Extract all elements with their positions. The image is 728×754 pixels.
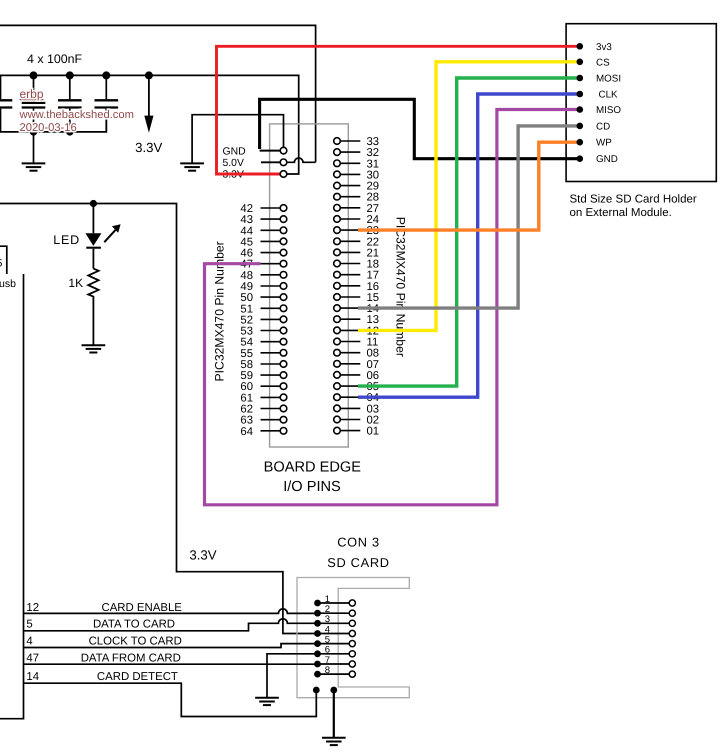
label I/O PINS bbox=[283, 479, 341, 495]
svg-text:CS: CS bbox=[596, 57, 610, 68]
pin 60 label bbox=[240, 381, 253, 393]
label CON 3 bbox=[337, 535, 380, 550]
pin 48 stub bbox=[261, 274, 281, 276]
pin 08 stub bbox=[340, 352, 360, 354]
svg-text:I/O PINS: I/O PINS bbox=[283, 479, 341, 495]
LED arrow bbox=[104, 224, 120, 242]
pin 03 stub bbox=[340, 407, 360, 409]
SD holder pin CD bbox=[577, 121, 611, 132]
pin 61 stub bbox=[261, 396, 281, 398]
label 5 bbox=[26, 619, 32, 631]
CON3 pin 2 bbox=[314, 604, 355, 617]
svg-text:06: 06 bbox=[367, 370, 380, 382]
svg-text:27: 27 bbox=[367, 203, 380, 215]
svg-text:CON 3: CON 3 bbox=[337, 535, 380, 550]
pin 50 label bbox=[240, 292, 253, 304]
wire purple MISO pin47 bbox=[205, 110, 580, 505]
pin 63 circle bbox=[280, 416, 287, 423]
wire LED rail / 3.3V feed to CON3 pin4 bbox=[0, 204, 315, 634]
pin 64 label bbox=[240, 426, 253, 438]
pin 04 label bbox=[367, 392, 380, 404]
pin 53 circle bbox=[280, 327, 287, 334]
pin 08 label bbox=[367, 348, 380, 360]
pin 18 circle bbox=[334, 260, 341, 267]
label 5.0V bbox=[223, 158, 244, 169]
svg-text:2020-03-16: 2020-03-16 bbox=[20, 122, 77, 134]
label PIC32MX470 Pin Number (left) bbox=[213, 241, 227, 381]
pin 27 label bbox=[367, 203, 380, 215]
pin 24 stub bbox=[340, 218, 360, 220]
LED D1 bbox=[85, 204, 101, 269]
svg-text:64: 64 bbox=[240, 426, 253, 438]
svg-text:4: 4 bbox=[26, 636, 32, 648]
CON3 pin 1 bbox=[314, 594, 355, 607]
pin 05 circle bbox=[334, 383, 341, 390]
wire red 3v3 bbox=[217, 46, 580, 174]
pin 61 circle bbox=[280, 394, 287, 401]
pin 49 stub bbox=[261, 285, 281, 287]
pin 07 stub bbox=[340, 363, 360, 365]
pin 43 circle bbox=[280, 216, 287, 223]
SD card holder box bbox=[566, 24, 716, 182]
svg-text:8: 8 bbox=[325, 665, 330, 676]
SD holder pin CLK bbox=[577, 90, 619, 101]
svg-text:CLOCK TO CARD: CLOCK TO CARD bbox=[89, 636, 182, 648]
pin 44 label bbox=[240, 225, 253, 237]
capacitor C4 100nF bbox=[95, 75, 119, 131]
label PIC32MX470 Pin Number (right) bbox=[394, 217, 408, 357]
pin 33 stub bbox=[340, 140, 360, 142]
pin 58 stub bbox=[261, 363, 281, 365]
junction bbox=[66, 71, 74, 79]
svg-text:BOARD EDGE: BOARD EDGE bbox=[264, 460, 362, 476]
resistor R1 1K bbox=[88, 269, 98, 345]
label 3.3V (CON3 feed) bbox=[189, 548, 216, 563]
svg-text:DATA TO CARD: DATA TO CARD bbox=[93, 619, 175, 631]
CON3 pin 6 bbox=[314, 645, 355, 658]
label CARD ENABLE bbox=[101, 602, 182, 614]
label SD CARD bbox=[327, 555, 390, 570]
svg-text:5: 5 bbox=[26, 619, 32, 631]
pin 43 stub bbox=[261, 218, 281, 220]
pin 17 label bbox=[367, 270, 380, 282]
pin 58 circle bbox=[280, 361, 287, 368]
pin 32 circle bbox=[334, 149, 341, 156]
pin 42 label bbox=[240, 203, 253, 215]
CON3 pin 3 bbox=[314, 614, 355, 627]
svg-text:3.3V: 3.3V bbox=[189, 548, 216, 563]
label 14 bbox=[26, 671, 39, 683]
svg-text:DATA FROM CARD: DATA FROM CARD bbox=[81, 652, 181, 664]
pin 42 circle bbox=[280, 205, 287, 212]
pin 02 circle bbox=[334, 416, 341, 423]
label 4 x 100nF bbox=[27, 52, 83, 66]
pin 17 stub bbox=[340, 274, 360, 276]
label GND bbox=[223, 146, 246, 157]
svg-text:3.3V: 3.3V bbox=[135, 140, 162, 155]
pin 44 stub bbox=[261, 229, 281, 231]
junction bbox=[30, 128, 37, 135]
svg-text:WP: WP bbox=[596, 138, 612, 149]
wire GND pin to ground symbol bbox=[192, 115, 283, 164]
pin 46 label bbox=[240, 248, 253, 260]
wire DATA FROM CARD to pin7 bbox=[24, 663, 316, 665]
CON3 pin 5 bbox=[314, 634, 355, 647]
pin 47 stub bbox=[261, 263, 281, 265]
pin 43 label bbox=[240, 214, 253, 226]
pin 06 label bbox=[367, 370, 380, 382]
pin 28 label bbox=[367, 192, 380, 204]
power 3.3V arrow bbox=[144, 75, 153, 132]
capacitor C1 100nF bbox=[0, 75, 12, 131]
pin 30 label bbox=[367, 169, 380, 181]
pin 47 label bbox=[240, 259, 253, 271]
wire DATA TO CARD to pin3 bbox=[24, 619, 316, 631]
svg-text:5: 5 bbox=[0, 258, 3, 270]
pin 32 stub bbox=[340, 151, 360, 153]
label CARD DETECT bbox=[97, 671, 178, 683]
pin 14 circle bbox=[334, 305, 341, 312]
junction bbox=[145, 71, 153, 79]
pin 04 circle bbox=[334, 394, 341, 401]
pin GND circle bbox=[280, 147, 287, 154]
svg-text:SD CARD: SD CARD bbox=[327, 555, 390, 570]
svg-text:12: 12 bbox=[26, 602, 39, 614]
pin 06 stub bbox=[340, 374, 360, 376]
pin 54 circle bbox=[280, 338, 287, 345]
label 5 (pin of left box) bbox=[0, 258, 3, 270]
svg-text:LED: LED bbox=[53, 233, 80, 247]
junction bbox=[66, 128, 73, 135]
label DATA TO CARD bbox=[93, 619, 175, 631]
pin 55 circle bbox=[280, 350, 287, 357]
label LED bbox=[53, 233, 80, 247]
capacitor C2 100nF bbox=[22, 75, 46, 131]
pin 54 label bbox=[240, 337, 253, 349]
wire GND pin link bbox=[260, 150, 280, 152]
ground bbox=[255, 698, 279, 705]
pin 23 label bbox=[367, 225, 380, 237]
svg-text:62: 62 bbox=[240, 404, 253, 416]
junction bbox=[30, 71, 38, 79]
svg-text:CLK: CLK bbox=[599, 90, 619, 101]
pin 04 stub bbox=[340, 396, 360, 398]
pin 07 label bbox=[367, 359, 380, 371]
capacitor C3 100nF bbox=[58, 75, 82, 131]
pin 29 circle bbox=[334, 182, 341, 189]
svg-text:www.thebackshed.com: www.thebackshed.com bbox=[19, 109, 134, 121]
label 4 bbox=[26, 636, 32, 648]
svg-text:MOSI: MOSI bbox=[596, 74, 621, 85]
pin 11 label bbox=[367, 337, 379, 349]
label 3.3V bbox=[135, 140, 162, 155]
pin 63 label bbox=[240, 415, 253, 427]
pin 30 stub bbox=[340, 173, 360, 175]
wire grey CD pin14 bbox=[358, 126, 580, 308]
CON3 mounting pin (gnd) bbox=[330, 687, 337, 738]
ground bbox=[322, 738, 346, 745]
pin 11 stub bbox=[340, 341, 360, 343]
svg-text:43: 43 bbox=[240, 214, 253, 226]
svg-text:11: 11 bbox=[367, 337, 379, 349]
pin 52 label bbox=[240, 314, 253, 326]
pin 53 label bbox=[240, 326, 253, 338]
pin 07 circle bbox=[334, 361, 341, 368]
pin 15 label bbox=[367, 292, 380, 304]
label 1K bbox=[68, 276, 83, 290]
svg-text:47: 47 bbox=[26, 652, 39, 664]
svg-text:18: 18 bbox=[367, 259, 380, 271]
pin 02 label bbox=[367, 415, 380, 427]
pin 51 circle bbox=[280, 305, 287, 312]
svg-text:60: 60 bbox=[240, 381, 253, 393]
pin 61 label bbox=[240, 392, 253, 404]
pin 11 circle bbox=[334, 338, 341, 345]
svg-text:50: 50 bbox=[240, 292, 253, 304]
pin 12 label bbox=[367, 325, 380, 337]
CON3 pin 4 bbox=[314, 624, 355, 637]
pin 05 stub bbox=[340, 385, 360, 387]
pin 53 stub bbox=[261, 330, 281, 332]
svg-text:GND: GND bbox=[223, 146, 246, 157]
pin 31 circle bbox=[334, 160, 341, 167]
svg-text:PIC32MX470 Pin Number: PIC32MX470 Pin Number bbox=[394, 217, 408, 357]
pin 29 label bbox=[367, 181, 380, 193]
svg-text:3v3: 3v3 bbox=[596, 42, 612, 53]
svg-text:CARD ENABLE: CARD ENABLE bbox=[101, 602, 182, 614]
pin 59 label bbox=[240, 370, 253, 382]
pin 21 stub bbox=[340, 251, 360, 253]
pin 21 circle bbox=[334, 249, 341, 256]
wire orange WP pin23 bbox=[358, 142, 580, 230]
ground bbox=[180, 163, 204, 170]
pin 31 stub bbox=[340, 162, 360, 164]
pin 48 label bbox=[240, 270, 253, 282]
pin 22 circle bbox=[334, 238, 341, 245]
pin 45 label bbox=[240, 236, 253, 248]
pin 46 stub bbox=[261, 252, 281, 254]
SD holder pin GND bbox=[577, 154, 618, 165]
pin 58 label bbox=[240, 359, 253, 371]
CON3 mounting pin (card detect) bbox=[313, 687, 320, 694]
svg-text:erbp: erbp bbox=[20, 87, 44, 101]
ground bbox=[22, 163, 46, 170]
pin 18 label bbox=[367, 259, 380, 271]
wire 5.0V pin stub bbox=[261, 161, 280, 163]
svg-text:usb: usb bbox=[0, 278, 16, 290]
svg-text:on External Module.: on External Module. bbox=[570, 207, 672, 219]
pin 13 label bbox=[367, 314, 380, 326]
ground bbox=[82, 345, 106, 352]
pin 46 circle bbox=[280, 249, 287, 256]
pin 63 stub bbox=[261, 419, 281, 421]
svg-text:48: 48 bbox=[240, 270, 253, 282]
pin 45 stub bbox=[261, 240, 281, 242]
svg-text:55: 55 bbox=[240, 348, 253, 360]
pin 13 circle bbox=[334, 316, 341, 323]
svg-text:5.0V: 5.0V bbox=[223, 158, 244, 169]
pin 08 circle bbox=[334, 349, 341, 356]
pin 49 circle bbox=[280, 283, 287, 290]
pin 52 circle bbox=[280, 316, 287, 323]
SD holder pin MISO bbox=[577, 105, 622, 116]
pin 15 stub bbox=[340, 296, 360, 298]
pin 01 label bbox=[367, 426, 380, 438]
SD holder pin 3v3 bbox=[577, 42, 613, 53]
pin 12 circle bbox=[334, 327, 341, 334]
wire 3.3V bus to 3.3V pin bbox=[0, 75, 299, 174]
wire capacitor ground bus bbox=[0, 108, 106, 131]
pin 23 circle bbox=[334, 227, 341, 234]
label usb bbox=[0, 278, 16, 290]
pin 49 label bbox=[240, 281, 253, 293]
label on External Module. bbox=[570, 207, 672, 219]
wire CARD DETECT to card switch bbox=[24, 683, 317, 716]
svg-text:30: 30 bbox=[367, 169, 380, 181]
pin 62 stub bbox=[261, 408, 281, 410]
pin 54 stub bbox=[261, 341, 281, 343]
wire cap bus to ground bbox=[33, 132, 35, 163]
pin 16 stub bbox=[340, 285, 360, 287]
pin 13 stub bbox=[340, 318, 360, 320]
pin 5.0V circle bbox=[280, 159, 287, 166]
wire pin6 to ground bbox=[267, 654, 315, 698]
pin 14 label bbox=[367, 303, 380, 315]
svg-text:4 x 100nF: 4 x 100nF bbox=[27, 52, 83, 66]
pin 62 circle bbox=[280, 405, 287, 412]
label 12 bbox=[26, 602, 39, 614]
pin 14 stub bbox=[340, 307, 360, 309]
pin 06 circle bbox=[334, 372, 341, 379]
wire GND (thick) board to SD holder bbox=[260, 99, 580, 158]
watermark 2020-03-16 bbox=[20, 122, 77, 134]
SD holder pin CS bbox=[577, 57, 611, 68]
svg-text:GND: GND bbox=[596, 154, 618, 165]
pin 12 stub bbox=[340, 329, 360, 331]
pin 60 circle bbox=[280, 383, 287, 390]
svg-text:14: 14 bbox=[26, 671, 39, 683]
pin 52 stub bbox=[261, 318, 281, 320]
SD holder pin WP bbox=[577, 138, 613, 149]
wire yellow CS pin12 bbox=[358, 62, 580, 331]
pin 3.3V circle bbox=[280, 171, 287, 178]
pin 64 circle bbox=[280, 428, 287, 435]
pin 18 stub bbox=[340, 263, 360, 265]
pin 33 label bbox=[367, 136, 380, 148]
label 47 bbox=[26, 652, 39, 664]
label DATA FROM CARD bbox=[81, 652, 181, 664]
junction bbox=[102, 71, 110, 79]
pin 01 stub bbox=[340, 430, 360, 432]
wire green MOSI pin05 bbox=[358, 78, 580, 386]
junction bbox=[90, 200, 97, 207]
pin 16 label bbox=[367, 281, 380, 293]
svg-text:CD: CD bbox=[596, 121, 610, 132]
pin 51 label bbox=[240, 303, 253, 315]
pin 22 label bbox=[367, 236, 380, 248]
pin 01 circle bbox=[334, 427, 341, 434]
SD holder pin MOSI bbox=[577, 74, 622, 85]
pin 24 circle bbox=[334, 216, 341, 223]
wire CLOCK TO CARD to pin5 bbox=[24, 644, 316, 648]
label Std Size SD Card Holder bbox=[570, 194, 697, 206]
svg-text:1K: 1K bbox=[68, 276, 83, 290]
svg-text:MISO: MISO bbox=[596, 105, 621, 116]
pin 03 circle bbox=[334, 405, 341, 412]
wire CARD ENABLE to pin2 bbox=[24, 609, 316, 614]
pin 59 stub bbox=[261, 374, 281, 376]
pin 27 stub bbox=[340, 207, 360, 209]
CON3 pin 8 bbox=[314, 665, 355, 678]
pin 62 label bbox=[240, 404, 253, 416]
wire blue CLK pin04 bbox=[358, 94, 580, 397]
svg-text:Std Size SD Card Holder: Std Size SD Card Holder bbox=[570, 194, 697, 206]
pin 27 circle bbox=[334, 205, 341, 212]
label 3.3V bbox=[223, 170, 244, 181]
svg-text:01: 01 bbox=[367, 426, 380, 438]
CON3 socket outline bbox=[297, 578, 409, 698]
pin 17 circle bbox=[334, 271, 341, 278]
pin 59 circle bbox=[280, 372, 287, 379]
pin 32 label bbox=[367, 147, 380, 159]
svg-text:45: 45 bbox=[240, 236, 253, 248]
pin 24 label bbox=[367, 214, 380, 226]
pin 05 label bbox=[367, 381, 380, 393]
wire 5.0V rail from off-page to 5.0V pin bbox=[0, 25, 316, 162]
svg-text:16: 16 bbox=[367, 281, 380, 293]
pin 22 stub bbox=[340, 240, 360, 242]
pin 30 circle bbox=[334, 171, 341, 178]
pin 15 circle bbox=[334, 294, 341, 301]
pin 51 stub bbox=[261, 307, 281, 309]
pin 02 stub bbox=[340, 419, 360, 421]
pin 50 stub bbox=[261, 296, 281, 298]
module box (left, off-page) bbox=[0, 246, 24, 719]
pin 23 stub bbox=[340, 229, 360, 231]
svg-text:32: 32 bbox=[367, 147, 380, 159]
pin 47 circle bbox=[280, 260, 287, 267]
watermark www.thebackshed.com bbox=[19, 109, 134, 121]
CON3 pin 7 bbox=[314, 655, 355, 668]
pin 29 stub bbox=[340, 185, 360, 187]
svg-text:13: 13 bbox=[367, 314, 380, 326]
pin 60 stub bbox=[261, 385, 281, 387]
pin 28 circle bbox=[334, 193, 341, 200]
svg-text:53: 53 bbox=[240, 326, 253, 338]
svg-text:CARD DETECT: CARD DETECT bbox=[97, 671, 178, 683]
pin 03 label bbox=[367, 403, 380, 415]
pin 48 circle bbox=[280, 272, 287, 279]
connector board-edge outline bbox=[270, 124, 349, 447]
pin 33 circle bbox=[334, 138, 341, 145]
pin 55 stub bbox=[261, 352, 281, 354]
pin 31 label bbox=[367, 158, 380, 170]
pin 50 circle bbox=[280, 294, 287, 301]
pin 16 circle bbox=[334, 283, 341, 290]
pin 45 circle bbox=[280, 238, 287, 245]
label BOARD EDGE bbox=[264, 460, 362, 476]
pin 28 stub bbox=[340, 196, 360, 198]
pin 64 stub bbox=[261, 430, 281, 432]
pin 55 label bbox=[240, 348, 253, 360]
pin 21 label bbox=[367, 247, 380, 259]
pin 44 circle bbox=[280, 227, 287, 234]
pin 42 stub bbox=[261, 207, 281, 209]
label CLOCK TO CARD bbox=[89, 636, 182, 648]
watermark erbp bbox=[20, 87, 44, 101]
